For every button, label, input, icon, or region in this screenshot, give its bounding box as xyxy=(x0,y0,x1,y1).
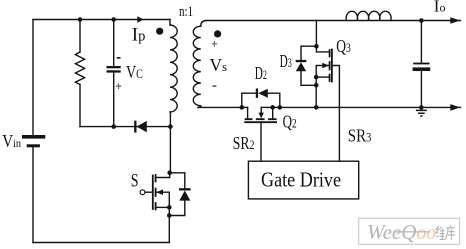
wire S source down xyxy=(168,207,170,242)
wire S body diode anode to source xyxy=(169,201,185,216)
svg-text:D2: D2 xyxy=(255,63,267,83)
svg-text:SR3: SR3 xyxy=(348,125,372,145)
svg-text:Io: Io xyxy=(434,0,446,16)
wire Q3 source down to rail xyxy=(315,77,317,107)
MOSFET Q2 gate bar xyxy=(245,121,276,123)
svg-text:Vin: Vin xyxy=(2,131,21,151)
svg-text:Q2: Q2 xyxy=(283,112,297,132)
MOSFET S gate circle xyxy=(140,190,145,195)
transformer secondary polarity dot xyxy=(214,30,221,37)
node D2 anode junction xyxy=(278,105,283,110)
wire resistor branch upper xyxy=(79,20,81,53)
svg-text:oo: oo xyxy=(417,223,437,244)
wire Q3 gate lead SR3 xyxy=(332,66,340,162)
MOSFET Q3 body arrow xyxy=(322,63,329,69)
wire S body stub xyxy=(156,192,170,207)
node clamp bottom transformer junction xyxy=(168,124,173,129)
wire D2 anode branch xyxy=(268,93,280,107)
watermark glyph wei xyxy=(436,226,445,240)
wire Q2 body stub xyxy=(260,107,262,113)
diode D1 triangle xyxy=(137,121,147,132)
Io output arrow xyxy=(450,17,460,24)
node Q3 source rail junction xyxy=(314,105,319,110)
bottom rail output arrow xyxy=(450,104,460,111)
transformer secondary winding xyxy=(193,26,201,106)
svg-text:SR2: SR2 xyxy=(233,133,255,153)
wire Q3 to D3 top xyxy=(301,46,316,60)
wire Q2 gate lead SR2 xyxy=(260,122,262,161)
wire S gate lead xyxy=(145,191,153,193)
diode of S cathode bar xyxy=(179,188,191,190)
ground symbol xyxy=(416,110,427,116)
transformer primary top bend xyxy=(169,20,171,26)
label VC minus xyxy=(117,57,121,59)
svg-text:D3: D3 xyxy=(280,51,292,71)
svg-text:n:1: n:1 xyxy=(179,4,193,20)
transformer secondary bottom bend xyxy=(198,106,201,108)
wire top-left rail xyxy=(33,19,170,21)
wire Q3 body stub xyxy=(316,66,329,78)
resistor R1 zigzag xyxy=(75,52,84,85)
transformer primary polarity dot xyxy=(156,28,163,35)
node top rail resistor junction xyxy=(78,17,83,22)
capacitor VC bottom plate xyxy=(107,70,121,72)
svg-text:S: S xyxy=(131,170,139,191)
wire D2 cathode branch xyxy=(242,93,256,107)
battery Vin short plate xyxy=(27,144,40,147)
Ip current arrow xyxy=(137,16,143,22)
diode D3 cathode bar xyxy=(296,60,307,62)
MOSFET S gate bar xyxy=(152,176,154,210)
wire Q3 drain stub xyxy=(316,46,329,52)
svg-text:Gate Drive: Gate Drive xyxy=(261,168,341,192)
wire output cap branch upper xyxy=(420,21,422,63)
watermark strike line xyxy=(393,231,430,233)
wire Q2 drain stub xyxy=(247,107,249,119)
Gate Drive block xyxy=(248,161,358,199)
diode D2 cathode bar xyxy=(256,89,258,98)
wire secondary return to Q2 xyxy=(198,106,248,108)
wire left vertical from rail to battery xyxy=(32,20,34,136)
MOSFET Q3 channel segments xyxy=(329,50,331,81)
diode of S triangle xyxy=(179,191,190,201)
wire capacitor VC branch lower xyxy=(113,73,115,127)
wire Q2 source stub xyxy=(272,107,274,119)
wire return rail piece B xyxy=(261,106,460,108)
wire capacitor VC branch upper xyxy=(113,20,115,67)
MOSFET Q2 channel segments xyxy=(246,118,276,120)
watermark box xyxy=(359,218,460,244)
node top rail capacitor junction xyxy=(111,17,116,22)
wire clamp bottom xyxy=(80,126,170,128)
wire S drain to body diode branch xyxy=(170,173,185,188)
svg-text:Q3: Q3 xyxy=(336,36,351,56)
svg-text:VC: VC xyxy=(126,62,143,82)
wire battery to bottom rail xyxy=(32,147,34,242)
node D2 cathode junction xyxy=(240,105,245,110)
node Q3 source stub junction xyxy=(314,75,319,80)
inductor Lo xyxy=(346,11,391,20)
MOSFET S channel segments xyxy=(155,175,157,210)
capacitor VC top plate xyxy=(107,66,121,68)
wire top rail right xyxy=(207,20,461,22)
transformer secondary top bend xyxy=(201,21,207,27)
MOSFET Q3 gate bar xyxy=(331,50,333,82)
wire D3 anode bottom xyxy=(301,71,316,85)
ground stub xyxy=(420,107,422,110)
MOSFET Q2 body arrow xyxy=(259,113,264,119)
node Q3 D3 bottom junction xyxy=(314,83,319,88)
label Vs minus xyxy=(213,85,217,87)
wire primary bottom to S drain xyxy=(169,112,171,173)
diode D3 triangle xyxy=(296,62,306,71)
label Vs plus xyxy=(212,41,218,47)
node clamp bottom capacitor junction xyxy=(111,124,116,129)
wire Q3 source stub xyxy=(316,76,329,78)
wire S drain stub xyxy=(156,173,170,178)
node Q3 drain junction xyxy=(314,44,319,49)
node bottom rail output cap junction xyxy=(419,105,424,110)
capacitor Co top plate xyxy=(413,63,429,65)
battery Vin long plate xyxy=(22,135,45,139)
label VC plus xyxy=(116,83,122,89)
svg-text:Vs: Vs xyxy=(210,55,228,75)
wire bottom rail xyxy=(33,242,169,244)
watermark glyph ku xyxy=(445,225,455,240)
svg-text:Ip: Ip xyxy=(132,24,146,45)
wire resistor branch lower xyxy=(79,85,81,127)
node S body diode bottom junction xyxy=(167,213,172,218)
diode D2 triangle xyxy=(258,89,268,98)
node top rail output cap junction xyxy=(419,18,424,23)
wire Q3 branch from rail xyxy=(315,21,317,47)
capacitor Co bottom plate xyxy=(413,67,431,71)
wire output cap branch lower xyxy=(420,71,422,107)
node Q2 source stub junction xyxy=(270,105,275,110)
node S drain junction xyxy=(167,171,172,176)
wire S source stub xyxy=(156,206,170,208)
node S source stub junction xyxy=(167,205,172,210)
transformer primary winding xyxy=(170,25,177,112)
diode D1 cathode bar xyxy=(134,121,136,133)
MOSFET S body arrow xyxy=(156,189,163,195)
